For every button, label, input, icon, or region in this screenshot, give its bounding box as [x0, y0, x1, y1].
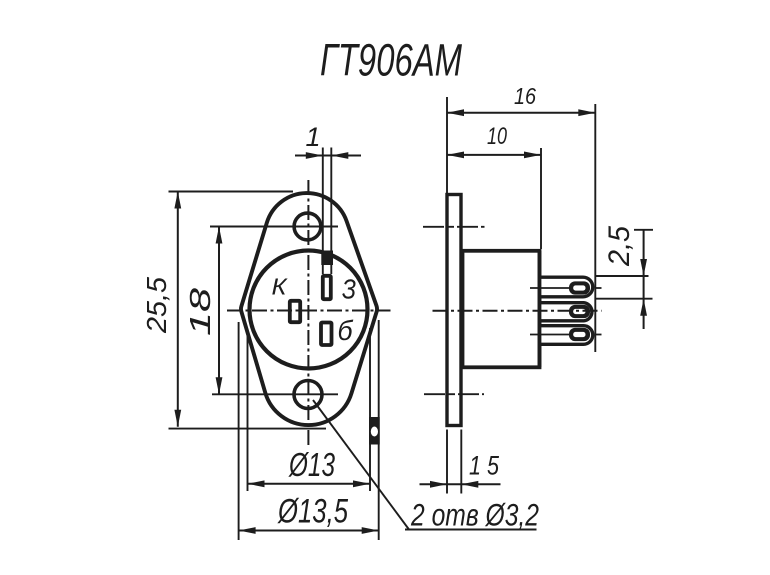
body right edge over leads — [538, 251, 542, 367]
svg-text:ГТ906АМ: ГТ906АМ — [320, 35, 462, 86]
dim 25,5 extension bottom — [169, 428, 327, 430]
dim 2,5 extensions — [595, 275, 648, 277]
dim 18 line — [218, 227, 220, 395]
svg-text:З: З — [342, 274, 356, 305]
side view centerline — [433, 310, 602, 312]
side view flange plate — [447, 195, 461, 426]
dim 25,5 extension top — [169, 191, 294, 193]
pin E (emitter) — [323, 276, 331, 299]
svg-text:10: 10 — [487, 123, 507, 150]
lead 1 axis — [530, 287, 570, 289]
dim 10 line — [447, 154, 541, 156]
side view body — [463, 251, 540, 367]
dim 25,5 line — [177, 192, 179, 427]
arrow marks between O13/O13,5 extensions — [369, 417, 380, 445]
mounting hole top Ø3.2 — [294, 213, 321, 240]
dim 16 extensions — [446, 97, 448, 193]
svg-text:25,5: 25,5 — [141, 277, 172, 334]
dim O13,5 line — [239, 530, 379, 532]
mounting hole bottom Ø3.2 — [294, 381, 322, 409]
dim 1,5 line — [420, 483, 501, 485]
svg-text:Ø13: Ø13 — [288, 446, 335, 483]
flange outline (front view) — [241, 193, 377, 425]
lead 2 eyelet — [569, 305, 590, 318]
svg-text:2 отв Ø3,2: 2 отв Ø3,2 — [410, 497, 539, 533]
dim 1 line with arrows — [295, 155, 361, 157]
svg-text:1 5: 1 5 — [469, 451, 500, 481]
svg-text:2,5: 2,5 — [603, 226, 636, 267]
svg-text:1: 1 — [305, 122, 320, 152]
lead 3 axis — [530, 334, 570, 336]
bottom hole axis mark (side view) — [424, 393, 484, 395]
dim O13 line — [248, 483, 371, 485]
svg-text:18: 18 — [185, 288, 217, 336]
lead 1 outline — [539, 277, 593, 297]
svg-text:б: б — [338, 315, 354, 346]
lead 3 outline — [539, 326, 593, 345]
leader line 2 holes O3,2 — [313, 400, 409, 530]
key mark above pin E — [321, 251, 333, 266]
svg-text:К: К — [272, 274, 289, 300]
svg-text:16: 16 — [514, 83, 537, 109]
dim 2,5 line — [643, 231, 645, 330]
lead 1 eyelet — [569, 281, 590, 294]
pin K (collector) — [290, 301, 300, 322]
dim 16 line — [447, 112, 595, 114]
top hole axis mark (side view) — [423, 226, 485, 228]
horizontal centerline — [227, 310, 391, 312]
lead 3 eyelet — [569, 328, 590, 341]
dim O13,5 extensions — [238, 322, 240, 540]
dim 1 extension lines — [322, 148, 324, 275]
dim 10 extension — [540, 148, 542, 249]
bottom hole axis line — [212, 393, 338, 395]
dim 1,5 extensions — [446, 430, 448, 494]
vertical centerline — [307, 180, 309, 446]
svg-text:Ø13,5: Ø13,5 — [277, 493, 348, 531]
dim O13 extensions — [247, 333, 249, 491]
lead 2 outline — [539, 303, 592, 321]
top hole axis line — [210, 226, 338, 228]
pin B (base) — [321, 323, 332, 346]
can body circle Ø13 — [250, 251, 368, 369]
